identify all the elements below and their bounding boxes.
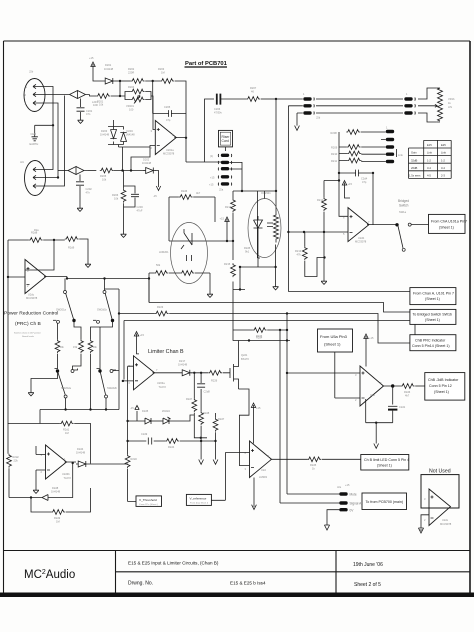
wire up to clamp node from row3 xyxy=(123,147,151,171)
feedback cap C207 47p xyxy=(352,170,368,184)
svg-text:4k7: 4k7 xyxy=(405,394,410,398)
switch SW202a xyxy=(58,373,72,399)
svg-text:ZD2d4: ZD2d4 xyxy=(162,409,170,413)
svg-text:47p: 47p xyxy=(166,118,171,122)
clamp diode D203 xyxy=(100,127,117,145)
gnd drop at x324 xyxy=(323,232,325,279)
op-amp U201a MC33078 xyxy=(151,121,177,156)
op-amp U2b MC33078 xyxy=(343,208,370,244)
middle column verticals xyxy=(233,191,260,290)
gain link table xyxy=(409,140,452,178)
feedback cap C205 47p xyxy=(164,105,175,122)
svg-text:R223: R223 xyxy=(157,305,164,309)
XLR connector J2b xyxy=(24,70,45,112)
svg-text:E15 & E25 b Iss4: E15 & E25 b Iss4 xyxy=(230,581,266,586)
PRC input wire xyxy=(8,240,25,424)
svg-text:(Sheet 1): (Sheet 1) xyxy=(425,318,440,322)
-15 arrow above diode row xyxy=(130,406,139,422)
Power Reduction Control label xyxy=(4,311,58,338)
bus PRC to right: y300 xyxy=(149,279,410,313)
bottom wire of column xyxy=(233,267,245,341)
svg-text:MC33078: MC33078 xyxy=(440,522,452,526)
svg-text:4-5: 4-5 xyxy=(427,174,431,178)
resistor R231 22k vertical xyxy=(7,454,20,468)
svg-text:19th June '06: 19th June '06 xyxy=(353,562,383,568)
PRC feedback wires xyxy=(8,239,88,262)
source lower rail to comparator xyxy=(239,389,250,466)
svg-text:C203: C203 xyxy=(137,205,144,209)
svg-text:MC33078: MC33078 xyxy=(26,296,38,300)
svg-text:C202: C202 xyxy=(86,187,93,191)
bridged switch contacts xyxy=(398,223,429,251)
R213 ties xyxy=(305,232,325,277)
svg-text:10k: 10k xyxy=(102,178,107,182)
resistor R237 to -3dB box xyxy=(401,384,415,398)
svg-text:R212: R212 xyxy=(317,198,324,202)
svg-text:EARTH: EARTH xyxy=(30,142,39,146)
svg-text:R205: R205 xyxy=(100,174,107,178)
svg-text:Not Used: Not Used xyxy=(429,469,451,475)
R212 tie wires xyxy=(324,181,339,233)
OC201 photo-res zigzag xyxy=(274,212,279,243)
wire PRC out long xyxy=(67,278,149,280)
wire pin1 J2b to bus xyxy=(38,87,53,126)
svg-text:R2d7: R2d7 xyxy=(218,417,225,421)
zener ZD204 xyxy=(126,409,194,424)
cell: drawing title xyxy=(128,561,219,566)
U203b input wires xyxy=(36,446,46,488)
svg-text:220R: 220R xyxy=(128,71,134,75)
op-amp U203b TL072 xyxy=(41,445,72,480)
Bridged Switch label xyxy=(398,199,409,214)
svg-text:1N4148: 1N4148 xyxy=(126,133,136,137)
svg-text:R2d6: R2d6 xyxy=(404,390,411,394)
svg-text:R202: R202 xyxy=(128,67,135,71)
trimmer VR201 100 xyxy=(126,96,145,112)
box Ch B limit LED xyxy=(361,455,409,471)
svg-text:R209: R209 xyxy=(331,146,338,150)
svg-text:3-4: 3-4 xyxy=(427,166,431,170)
svg-text:D2d8: D2d8 xyxy=(52,486,59,490)
switch SW202b xyxy=(100,373,117,399)
svg-text:2-3: 2-3 xyxy=(441,174,445,178)
svg-text:Limiter Chan B: Limiter Chan B xyxy=(148,349,184,355)
svg-text:Link: Link xyxy=(398,153,403,157)
OC201 bottom to ground xyxy=(258,232,276,285)
svg-text:R2d9: R2d9 xyxy=(54,516,61,520)
svg-text:1M: 1M xyxy=(65,431,69,435)
svg-text:-15: -15 xyxy=(130,406,134,410)
unused opamp gnd xyxy=(421,515,429,528)
sheet frame left border xyxy=(3,41,5,551)
bus y322 wire to limiter xyxy=(124,321,415,380)
svg-text:(Sheet 1): (Sheet 1) xyxy=(324,342,341,347)
logo MC2 Audio xyxy=(24,569,75,581)
svg-text:+15: +15 xyxy=(210,176,215,180)
op-amp U2e xyxy=(355,366,384,406)
svg-text:U2e: U2e xyxy=(370,393,375,397)
svg-text:D203: D203 xyxy=(101,129,108,133)
svg-text:C2d8: C2d8 xyxy=(204,390,211,394)
svg-text:MC33078: MC33078 xyxy=(163,152,175,156)
svg-text:R214: R214 xyxy=(225,205,232,209)
svg-text:D202: D202 xyxy=(143,158,150,162)
svg-text:J2a: J2a xyxy=(219,188,224,192)
+15 to opamp U2b xyxy=(342,181,352,191)
R216 ties xyxy=(169,197,215,241)
gnd stub left of opamp xyxy=(33,488,39,493)
svg-text:10k: 10k xyxy=(99,103,104,107)
resistor bank R222 xyxy=(88,339,97,353)
svg-text:ChB PRC Indicator: ChB PRC Indicator xyxy=(415,339,446,343)
title: Part of PCB701 xyxy=(185,61,228,67)
svg-text:CHB: CHB xyxy=(31,132,37,136)
svg-text:Sheet 2 of 5: Sheet 2 of 5 xyxy=(354,582,381,588)
switch SW201a xyxy=(56,279,76,323)
svg-text:1N4148: 1N4148 xyxy=(178,363,188,367)
long verticals to connector xyxy=(280,314,340,504)
clamp diode D204 xyxy=(120,127,135,145)
svg-text:MC33078: MC33078 xyxy=(355,240,367,244)
long bus wires across to right connector xyxy=(316,99,403,113)
svg-text:1M: 1M xyxy=(56,520,60,524)
svg-text:10R: 10R xyxy=(93,103,98,107)
svg-text:R2d6: R2d6 xyxy=(256,334,263,338)
svg-text:R2d8: R2d8 xyxy=(31,231,38,235)
svg-text:SW2d2b: SW2d2b xyxy=(107,386,118,390)
0V pin to ground xyxy=(327,510,340,525)
svg-text:+15: +15 xyxy=(89,56,94,60)
LDR201 ellipse xyxy=(159,223,208,284)
svg-text:(PRC) Ch B: (PRC) Ch B xyxy=(15,321,41,327)
resistor R217 56k xyxy=(154,263,168,275)
op-amp U2c PRC xyxy=(25,260,46,301)
op-amp U203a TL072 xyxy=(129,356,167,390)
svg-text:LIN: LIN xyxy=(448,105,452,109)
svg-text:26dB: 26dB xyxy=(411,166,417,170)
box From ChA U101a Pin7 xyxy=(429,214,467,233)
cap row wires xyxy=(339,173,373,225)
comparator U204 LM393 xyxy=(245,441,272,479)
svg-text:47/30v: 47/30v xyxy=(214,111,222,115)
cell: date xyxy=(353,562,383,568)
svg-text:BS170: BS170 xyxy=(241,357,249,361)
svg-text:C2d4: C2d4 xyxy=(361,177,368,181)
resistor bank R220 xyxy=(55,339,64,353)
gnd left of bank xyxy=(31,373,58,391)
svg-text:R204: R204 xyxy=(128,85,135,89)
svg-text:47n: 47n xyxy=(86,112,91,116)
svg-text:From PCx (Sheet ): From PCx (Sheet ) xyxy=(140,503,159,506)
U2c feedback vertical xyxy=(25,256,67,279)
capacitor C206 47/30v electrolytic xyxy=(214,94,246,115)
R213 threshold divider vertical xyxy=(125,454,137,468)
ground below R206 xyxy=(121,232,127,237)
resistor R227 vertical xyxy=(186,397,197,412)
wires R206 C203 pair xyxy=(124,171,136,233)
LDR internal resistor xyxy=(180,271,194,276)
cell: drwng no xyxy=(128,581,266,587)
bus wires to board connector xyxy=(276,99,303,212)
sheet frame right border xyxy=(469,41,471,593)
svg-text:Drwng. No.: Drwng. No. xyxy=(128,581,153,587)
svg-text:47uF: 47uF xyxy=(137,209,143,213)
svg-text:V_Threshold: V_Threshold xyxy=(139,498,157,502)
svg-text:SW1a: SW1a xyxy=(399,210,407,214)
svg-text:D217: D217 xyxy=(179,359,186,363)
svg-text:22k: 22k xyxy=(14,459,19,463)
svg-text:1N4148: 1N4148 xyxy=(104,67,114,71)
resistor R213 47k vertical xyxy=(295,246,307,260)
svg-text:D2d4: D2d4 xyxy=(77,447,84,451)
U2b output to bridged switch xyxy=(367,224,397,226)
wire to opamp inverting xyxy=(287,372,360,374)
common-mode choke L202 xyxy=(68,167,88,175)
V_reference box xyxy=(186,494,211,505)
ladder wires to link pins xyxy=(339,132,386,162)
svg-text:D2d5: D2d5 xyxy=(142,409,149,413)
svg-text:(Sheet 1): (Sheet 1) xyxy=(439,226,454,230)
wire y241 xyxy=(169,227,233,241)
+15 arrow U2e xyxy=(364,334,374,344)
diode D202 1N4148 xyxy=(142,158,156,174)
svg-text:R2d5: R2d5 xyxy=(244,246,251,250)
vertical x204 pick-off to C206 row xyxy=(205,99,215,162)
svg-text:U203a: U203a xyxy=(157,381,165,385)
svg-text:32dB: 32dB xyxy=(411,158,417,162)
svg-text:LM393: LM393 xyxy=(259,475,267,479)
svg-text:Power Reduction Control: Power Reduction Control xyxy=(4,311,58,317)
svg-text:9k1: 9k1 xyxy=(245,250,250,254)
switch SW201b xyxy=(97,279,114,323)
svg-text:(Sheet 1): (Sheet 1) xyxy=(434,390,449,394)
diode D201 1N4148 xyxy=(103,63,115,84)
U5a box feed wire xyxy=(335,352,360,398)
svg-text:D201: D201 xyxy=(105,63,112,67)
svg-text:Gain: Gain xyxy=(411,151,417,155)
resistor R203 1M row1 xyxy=(158,67,174,83)
resistor bank R221 xyxy=(73,339,83,353)
resistor R207 xyxy=(246,86,260,101)
LDR row wires xyxy=(149,273,210,303)
svg-text:C2d1: C2d1 xyxy=(399,405,406,409)
svg-text:R2d5: R2d5 xyxy=(310,463,317,467)
svg-text:R2d8: R2d8 xyxy=(203,411,210,415)
R label 9k1 xyxy=(244,246,251,254)
svg-text:J2d: J2d xyxy=(316,116,321,120)
svg-text:J2c: J2c xyxy=(20,160,25,164)
V_Threshold box xyxy=(136,496,162,507)
svg-text:-15: -15 xyxy=(153,194,157,198)
optocoupler OC201 ellipse xyxy=(248,191,281,258)
wire choke2 to R205 xyxy=(88,170,96,172)
wire y191 xyxy=(233,190,276,192)
+15 limiter arrow xyxy=(134,332,144,342)
resistor R202 220R row1 xyxy=(128,67,145,83)
svg-text:C206: C206 xyxy=(214,107,221,111)
resistor R209 xyxy=(331,145,361,150)
svg-text:E15 & E25 Input & Limiter Cir: E15 & E25 Input & Limiter Circuits, (Cha… xyxy=(128,561,219,566)
comparator gnd drop xyxy=(253,478,255,508)
svg-text:Switch: Switch xyxy=(399,204,409,208)
feedback diode D219 xyxy=(40,486,61,501)
box To Bridged Switch SW1b xyxy=(410,309,456,324)
resistor R210 xyxy=(331,151,361,156)
svg-text:15k: 15k xyxy=(73,345,78,349)
svg-text:1N4148: 1N4148 xyxy=(142,161,152,165)
resistor R218 xyxy=(29,231,43,243)
svg-text:1N4148: 1N4148 xyxy=(100,133,110,137)
svg-text:56k: 56k xyxy=(156,263,161,267)
svg-text:+15: +15 xyxy=(256,406,261,410)
ground below C202 xyxy=(77,206,83,211)
svg-text:OC2901: OC2901 xyxy=(261,191,271,195)
svg-text:R207: R207 xyxy=(250,86,257,90)
svg-text:ChB -3dB Indicator: ChB -3dB Indicator xyxy=(428,378,459,382)
wire R207 to bus junction xyxy=(261,98,276,100)
resistor R206 10k vertical xyxy=(112,189,126,203)
svg-text:LDR201: LDR201 xyxy=(159,250,169,254)
chassis ground CHB EARTH xyxy=(30,132,39,146)
common-mode choke L201 xyxy=(70,91,99,108)
resistor R216 4k7 top of LDR xyxy=(179,189,201,199)
bank wires bottom + contacts xyxy=(55,327,117,410)
svg-text:R2d3: R2d3 xyxy=(131,457,138,461)
wire y343 to PRC indicator box (from U5a node) xyxy=(377,342,379,344)
svg-text:3-4: 3-4 xyxy=(441,166,445,170)
svg-text:VR201: VR201 xyxy=(126,104,134,108)
svg-text:R226: R226 xyxy=(211,379,218,383)
resistor R225 gate xyxy=(208,370,222,382)
chassis earth wire xyxy=(35,125,53,136)
svg-text:J2e: J2e xyxy=(337,485,342,489)
svg-text:C2d9: C2d9 xyxy=(141,432,148,436)
svg-text:U2d: U2d xyxy=(261,468,266,472)
+input wire y232 xyxy=(288,231,348,233)
svg-text:From U5a Pin3: From U5a Pin3 xyxy=(320,334,348,339)
svg-text:1M: 1M xyxy=(161,71,165,75)
output diode D218 xyxy=(76,447,88,467)
R330 row xyxy=(233,329,287,331)
svg-text:+15: +15 xyxy=(369,336,374,340)
svg-text:E15: E15 xyxy=(427,143,432,147)
-15 supply arrow down xyxy=(153,182,161,198)
cap C209 inline xyxy=(128,432,166,445)
riser card box xyxy=(219,130,233,147)
resistor R215 vertical in column xyxy=(224,262,235,277)
svg-text:10k: 10k xyxy=(60,345,65,349)
svg-text:R208: R208 xyxy=(331,131,338,135)
comparator output wire xyxy=(271,458,361,460)
riser connector pins J2a xyxy=(209,147,232,192)
svg-text:47k: 47k xyxy=(297,253,302,257)
svg-text:U2d3b: U2d3b xyxy=(62,472,70,476)
svg-text:C205: C205 xyxy=(164,105,171,109)
svg-text:R203: R203 xyxy=(158,67,165,71)
MOSFET Q201 BS170 xyxy=(223,353,250,389)
svg-text:TL072: TL072 xyxy=(159,385,167,389)
resistor R234 inline xyxy=(165,439,179,449)
svg-text:(Sheet 1): (Sheet 1) xyxy=(425,297,440,301)
svg-text:+15: +15 xyxy=(345,483,350,487)
limiter output diode D224 xyxy=(178,359,192,376)
resistor R228 vertical xyxy=(199,411,210,425)
resistor R204 parallel xyxy=(128,85,145,94)
cell: sheet xyxy=(354,582,381,588)
wire D201 to junction xyxy=(115,80,131,82)
resistor R212 vertical xyxy=(317,197,326,211)
drain top rail xyxy=(233,341,290,356)
svg-text:To from PCB700 (main): To from PCB700 (main) xyxy=(366,500,404,504)
svg-text:Link: Link xyxy=(441,151,447,155)
svg-text:R2d2: R2d2 xyxy=(13,455,20,459)
cap C210 electrolytic xyxy=(388,386,406,423)
svg-text:R2d9: R2d9 xyxy=(68,246,75,250)
svg-text:From (Da) Sheet 4: From (Da) Sheet 4 xyxy=(190,502,209,505)
wire y267 xyxy=(240,266,276,268)
svg-text:+15: +15 xyxy=(209,183,214,187)
svg-text:D204: D204 xyxy=(127,129,134,133)
resistor R229 vertical xyxy=(213,417,225,432)
svg-text:From ChA U101a Pin7: From ChA U101a Pin7 xyxy=(431,220,467,224)
ladder bus vertical xyxy=(339,132,348,216)
svg-text:Bridged: Bridged xyxy=(398,199,409,203)
capacitor C203 47u vertical xyxy=(131,188,143,213)
svg-text:To Bridged Switch SW1b: To Bridged Switch SW1b xyxy=(413,313,453,317)
svg-text:Card: Card xyxy=(222,139,229,143)
resistor R223 inline xyxy=(155,305,169,316)
svg-text:Mute: Mute xyxy=(350,493,357,497)
svg-text:U2dc: U2dc xyxy=(28,293,35,297)
output wire opamp1 xyxy=(174,138,221,163)
svg-text:SW2d1b: SW2d1b xyxy=(97,308,108,312)
resistor R201 10k row2 xyxy=(96,94,110,107)
svg-text:R213: R213 xyxy=(295,249,302,253)
resistor R208 xyxy=(331,130,361,135)
wires into J2c from bus xyxy=(38,160,65,186)
bracket pins 2-3 xyxy=(230,162,243,191)
svg-text:V_reference: V_reference xyxy=(190,497,207,501)
LDR LED symbol xyxy=(181,229,192,249)
ground below C201 xyxy=(78,118,84,123)
bank bottom rail xyxy=(40,371,119,424)
svg-text:(1): (1) xyxy=(210,154,213,158)
wire bus2 down to +input row xyxy=(288,106,410,292)
svg-text:Q2d1: Q2d1 xyxy=(241,353,248,357)
svg-text:Conn 5 Pin 12: Conn 5 Pin 12 xyxy=(429,384,452,388)
wires to diode D202 xyxy=(114,170,145,172)
svg-text:R215: R215 xyxy=(224,262,231,266)
box To/from PCB700 xyxy=(362,493,407,510)
svg-text:R211: R211 xyxy=(331,159,338,163)
LDR gap bars xyxy=(187,255,192,261)
connector pins Mute / Signal A / 0V xyxy=(337,483,362,513)
svg-text:Ch B limit LED Conn 5 Pin 4: Ch B limit LED Conn 5 Pin 4 xyxy=(364,458,409,462)
+15 supply arrow xyxy=(89,56,95,72)
contact circles row xyxy=(53,320,100,323)
cap C208 below diode xyxy=(197,373,210,394)
resistor R219 xyxy=(65,237,79,250)
svg-text:R206: R206 xyxy=(112,193,119,197)
svg-text:1-2: 1-2 xyxy=(427,158,431,162)
svg-text:1-2: 1-2 xyxy=(441,158,445,162)
sheet frame top border xyxy=(4,40,471,42)
svg-text:4k7: 4k7 xyxy=(196,191,201,195)
resistor R236 xyxy=(253,328,267,338)
wire D202 to -15 xyxy=(155,171,159,183)
+15 arrow mid xyxy=(220,217,230,228)
parallel pair ties to opamp pin3 xyxy=(125,92,155,130)
